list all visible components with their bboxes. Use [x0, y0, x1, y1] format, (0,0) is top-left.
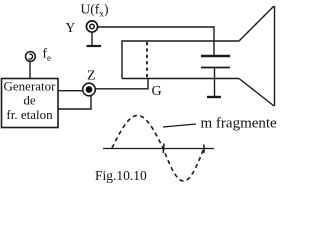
svg-text:m fragmente: m fragmente	[201, 116, 278, 132]
svg-text:Z: Z	[87, 69, 96, 84]
svg-text:Fig.10.10: Fig.10.10	[95, 168, 147, 183]
svg-text:fr. etalon: fr. etalon	[6, 107, 53, 122]
svg-text:G: G	[152, 84, 162, 99]
svg-text:de: de	[23, 93, 36, 108]
svg-text:Generator: Generator	[4, 79, 57, 94]
svg-text:Y: Y	[66, 20, 76, 35]
